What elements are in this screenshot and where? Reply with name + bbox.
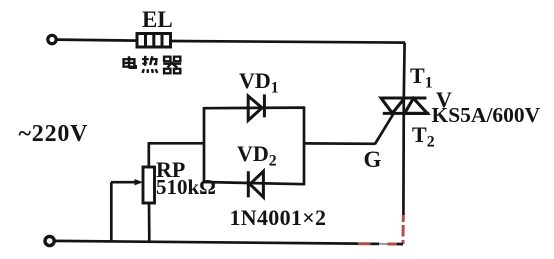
wire wiper drop bbox=[110, 182, 113, 241]
diode VD2 cathode bar bbox=[247, 171, 250, 197]
wire RP top lead bbox=[147, 143, 150, 167]
wire bottom rail bbox=[55, 241, 359, 244]
wire bottom rail dark dashes near corner bbox=[371, 242, 380, 245]
diode box right edge bbox=[303, 106, 306, 185]
heater EL body bbox=[137, 34, 171, 48]
label T1 bbox=[410, 65, 433, 91]
gate lead diagonal bbox=[375, 113, 394, 144]
label KS5A/600V bbox=[432, 105, 541, 127]
wire right rail upper (to triac T1) bbox=[402, 43, 406, 98]
wire bottom rail red-marked dashes bbox=[358, 242, 397, 245]
label T2 bbox=[412, 124, 435, 150]
label VD1 bbox=[239, 70, 279, 96]
label EL bbox=[142, 8, 173, 31]
diode VD2 triangle bbox=[250, 171, 263, 197]
triac V left triangle bbox=[381, 98, 405, 113]
triac V bottom bar bbox=[383, 112, 429, 115]
terminal bottom-left bbox=[45, 236, 54, 245]
terminal top-left bbox=[48, 35, 56, 43]
potentiometer RP wiper arrow bbox=[111, 181, 137, 184]
label 电热器 (electric heater), drawn as SVG strokes bbox=[120, 55, 183, 75]
wire through triac bbox=[402, 98, 405, 215]
diode VD1 triangle bbox=[248, 96, 262, 120]
triac V right triangle bbox=[405, 98, 428, 113]
wire top rail left of EL bbox=[57, 40, 136, 41]
wire RP bottom lead bbox=[148, 203, 151, 241]
label RP bbox=[156, 159, 185, 181]
triac V top bar bbox=[381, 97, 427, 100]
wire right rail red-marked segment bbox=[402, 215, 405, 244]
label G bbox=[364, 148, 382, 171]
wire RP top horizontal to diode box bbox=[148, 142, 205, 145]
wire top rail right of EL bbox=[171, 41, 406, 43]
label VD2 bbox=[237, 143, 277, 169]
diode VD1 cathode bar bbox=[263, 94, 266, 117]
label 1N4001×2 bbox=[230, 207, 327, 229]
gate wire horizontal bbox=[304, 142, 376, 145]
label ~220V bbox=[19, 122, 89, 146]
label 510kΩ bbox=[156, 177, 216, 198]
potentiometer RP body bbox=[143, 167, 155, 203]
label V bbox=[436, 89, 452, 111]
diode box left edge bbox=[203, 107, 206, 183]
diode box bottom branch bbox=[204, 182, 304, 184]
diode box top branch bbox=[204, 106, 304, 109]
